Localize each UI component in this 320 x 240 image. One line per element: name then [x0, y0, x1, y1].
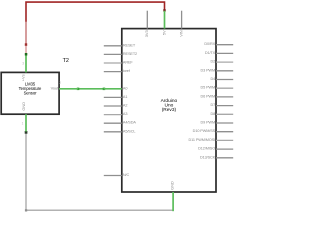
pin N/C [104, 173, 130, 177]
svg-text:5V: 5V [161, 30, 166, 35]
pin D5 PWM [201, 86, 234, 90]
pin D6 PWM [201, 94, 234, 98]
pin number 2 (LM35 Vout) [59, 81, 61, 85]
bendpoint dot at grey wire corner [25, 209, 27, 211]
wire end dot at A0 side [103, 88, 106, 91]
svg-text:D11 PWM/MOSI: D11 PWM/MOSI [189, 138, 216, 142]
svg-text:N/C: N/C [123, 173, 130, 177]
pin A3 [104, 112, 128, 116]
svg-text:D12/MISO: D12/MISO [198, 147, 215, 151]
svg-text:D7: D7 [210, 103, 215, 107]
wire 5V net (red, light middle segment) [25, 22, 27, 44]
svg-text:GND: GND [21, 102, 26, 111]
svg-text:D9 PWM: D9 PWM [201, 121, 216, 125]
pin D2 [210, 60, 233, 64]
pin D7 [210, 103, 233, 107]
pin D3 PWM [201, 68, 234, 72]
svg-text:A4/SDA: A4/SDA [123, 121, 136, 125]
pin D9 PWM [201, 121, 234, 125]
svg-text:Sensor: Sensor [24, 90, 37, 95]
wire end cap at LM35 GND (dark) [25, 131, 28, 134]
pin D8 [210, 112, 233, 116]
svg-text:D3 PWM: D3 PWM [201, 68, 216, 72]
label T2 [63, 58, 69, 64]
svg-text:D10 PWM/SS: D10 PWM/SS [193, 129, 216, 133]
pin VIN (top) [179, 11, 184, 37]
pin number 3 (LM35 +Vs) [22, 61, 24, 65]
pin D1/TX [205, 51, 233, 55]
svg-text:D6 PWM: D6 PWM [201, 94, 216, 98]
svg-text:ioref: ioref [123, 69, 131, 73]
svg-text:VIN: VIN [179, 30, 184, 37]
pin A0 [104, 86, 128, 90]
wire end dot at Vout side [77, 88, 80, 91]
wire A0 net (green) from LM35 Vout to Arduino A0 [78, 88, 104, 90]
LM35 temperature sensor T2 body [1, 72, 59, 114]
svg-text:RESET: RESET [123, 43, 136, 47]
svg-text:A3: A3 [123, 112, 127, 116]
wire end cap at 5V pin (dark red) [163, 9, 165, 11]
svg-text:D13/SCK: D13/SCK [200, 155, 216, 159]
svg-text:RESET2: RESET2 [123, 52, 137, 56]
pin RESET [104, 43, 136, 47]
wire GND net (grey) from LM35 GND to Arduino GND [26, 133, 173, 210]
pin A1 [104, 95, 128, 99]
pin D10 PWM/SS [193, 129, 234, 133]
pin D13/SCK [200, 155, 233, 159]
pin 5V (top) [161, 11, 166, 35]
pin 3V3 (top) [144, 11, 149, 38]
junction bendpoint on red wire [25, 43, 27, 46]
pin A4/SDA [104, 121, 137, 125]
svg-text:3: 3 [22, 61, 24, 65]
pin A2 [104, 104, 128, 108]
pin D0/RX [204, 42, 233, 46]
svg-text:A5/SCL: A5/SCL [123, 129, 135, 133]
pin +Vs (LM35 top) [21, 53, 28, 81]
pin ioref [104, 69, 131, 73]
svg-text:A2: A2 [123, 104, 127, 108]
pin D11 PWM/MOSI [189, 138, 234, 142]
svg-text:D5 PWM: D5 PWM [201, 86, 216, 90]
svg-text:AREF: AREF [123, 61, 134, 65]
wire 5V net (red, dark segment from bend to Arduino 5V pin) [26, 2, 165, 22]
pin RESET2 [104, 52, 137, 56]
svg-text:A1: A1 [123, 95, 127, 99]
pin Vout (LM35 right) [51, 85, 78, 90]
Arduino Uno (Rev3) body [122, 29, 216, 192]
svg-text:+Vs: +Vs [21, 74, 26, 81]
pin A5/SCL [104, 129, 136, 133]
svg-text:D4: D4 [210, 77, 215, 81]
svg-text:2: 2 [59, 81, 61, 85]
svg-text:A0: A0 [123, 86, 127, 90]
svg-text:(Rev3): (Rev3) [162, 107, 177, 113]
wire 5V net (pink segment to LM35 +Vs) [25, 46, 27, 54]
svg-text:D1/TX: D1/TX [205, 51, 216, 55]
svg-text:T2: T2 [63, 58, 69, 64]
svg-text:D0/RX: D0/RX [204, 42, 215, 46]
svg-text:Vout: Vout [51, 85, 60, 90]
pin D4 [210, 77, 233, 81]
svg-text:GND: GND [170, 181, 175, 190]
svg-text:3V3: 3V3 [144, 30, 149, 38]
pin number 1 (LM35 GND) [22, 121, 24, 125]
svg-text:1: 1 [22, 121, 24, 125]
pin D12/MISO [198, 147, 233, 151]
svg-text:D8: D8 [210, 112, 215, 116]
pin GND (Arduino bottom) [170, 181, 175, 211]
pin GND (LM35 bottom) [21, 102, 26, 132]
pin AREF [104, 61, 134, 65]
svg-text:D2: D2 [210, 60, 215, 64]
